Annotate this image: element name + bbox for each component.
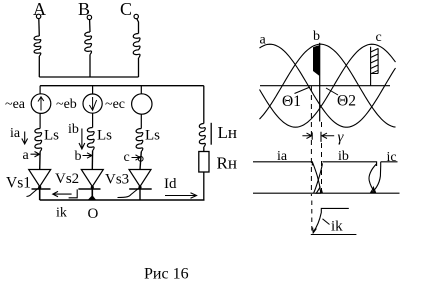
svg-text:ik: ik [56, 206, 67, 221]
terminal B [87, 15, 91, 19]
inductor Ls phase c [136, 129, 143, 152]
label ik waveform [323, 219, 330, 225]
gate Vs1 [27, 188, 39, 197]
wire B terminal to coil [89, 20, 91, 32]
transformer winding B [85, 32, 92, 55]
gate Vs2 [69, 189, 78, 197]
svg-text:a: a [260, 33, 267, 48]
commutation fill at b [313, 46, 319, 76]
junction node O dot [89, 196, 96, 200]
wire bus to ~eb [92, 86, 94, 94]
wire B coil to bus [89, 55, 91, 78]
svg-text:Рис 16: Рис 16 [144, 266, 189, 283]
wire Vs1 to bus [39, 187, 41, 201]
svg-text:O: O [88, 206, 99, 222]
cathode bus wire [40, 199, 205, 201]
wire a to Vs1 [39, 152, 41, 170]
upper bus wire [39, 76, 138, 78]
svg-text:b: b [313, 29, 320, 44]
sine wave phase b [260, 44, 396, 127]
dashed line theta1 [310, 86, 312, 196]
ik zero line [311, 234, 357, 236]
wire bus to ~ec [140, 86, 142, 94]
current ib trace [314, 162, 377, 193]
inductor Ln [199, 124, 205, 148]
dashed line theta2 [321, 122, 323, 192]
svg-text:Ls: Ls [97, 128, 112, 144]
current arrow Id [165, 193, 197, 198]
resistor Rn [199, 152, 209, 173]
wire bus to Ln [203, 86, 205, 124]
svg-text:b: b [75, 149, 82, 164]
wire Rn to bus [203, 172, 205, 200]
wire C coil to bus [138, 58, 140, 77]
svg-text:γ: γ [338, 130, 345, 146]
svg-text:ik: ik [331, 219, 343, 235]
thyristor Vs3 [129, 170, 151, 187]
svg-text:ia: ia [10, 126, 21, 141]
svg-text:Lн: Lн [218, 123, 237, 142]
svg-text:Ls: Ls [44, 128, 59, 144]
svg-text:Vs1: Vs1 [6, 175, 31, 192]
current arrow ik [53, 191, 72, 196]
transformer winding A [34, 36, 41, 56]
svg-text:ib: ib [338, 149, 349, 164]
svg-text:B: B [78, 0, 90, 19]
svg-text:c: c [376, 30, 382, 45]
sine wave phase a [260, 44, 396, 127]
svg-text:Vs2: Vs2 [55, 171, 79, 187]
svg-text:~ec: ~ec [105, 97, 125, 112]
vertical line at b peak [319, 43, 321, 122]
thyristor Vs2 [81, 170, 103, 187]
wire Vs2 to bus [91, 187, 93, 200]
svg-text:C: C [120, 0, 132, 19]
hatched band at c [371, 47, 379, 86]
source ~ec [132, 94, 152, 114]
wire c to Vs3 [140, 152, 141, 170]
wire Vs3 to bus [139, 187, 141, 201]
svg-text:ic: ic [387, 150, 397, 165]
wire C terminal to coil [137, 19, 139, 34]
svg-text:A: A [33, 0, 46, 19]
current zero axis [253, 192, 400, 194]
wire Ln to Rn [203, 147, 205, 152]
svg-text:Rн: Rн [217, 154, 237, 173]
svg-text:Θ2: Θ2 [337, 93, 356, 110]
inductor Ls phase b [87, 128, 94, 151]
wire A terminal to coil [38, 19, 41, 36]
wire ~ea to Ls [39, 113, 41, 128]
wire ~eb to Ls [92, 113, 94, 127]
current ia trace [253, 162, 321, 193]
current ic trace [371, 162, 398, 193]
source ~ea [31, 94, 51, 114]
lower bus wire [40, 85, 204, 87]
current ik trace [313, 208, 349, 232]
svg-text:c: c [124, 150, 130, 165]
voltage axis [260, 85, 390, 87]
inductor Ls phase a [35, 129, 42, 152]
sine wave phase c [260, 44, 396, 127]
svg-text:Vs3: Vs3 [105, 172, 129, 188]
svg-text:Θ1: Θ1 [282, 93, 301, 110]
svg-text:~eb: ~eb [56, 97, 77, 112]
dimension gamma [302, 133, 311, 138]
terminal A [36, 14, 40, 18]
source ~eb [83, 94, 102, 113]
wire ~ec to Ls [140, 114, 142, 128]
wire b to Vs2 [91, 151, 93, 170]
transformer winding C [133, 34, 140, 59]
wire bus to ~ea [39, 86, 41, 94]
dashed line in ik region [311, 201, 313, 233]
svg-text:ia: ia [277, 149, 288, 164]
svg-text:Ls: Ls [145, 128, 160, 144]
svg-text:a: a [23, 148, 30, 163]
svg-text:Id: Id [164, 176, 177, 192]
svg-text:ib: ib [68, 122, 79, 137]
wire A coil to bus [38, 56, 40, 77]
svg-text:~ea: ~ea [5, 97, 26, 112]
terminal C [134, 14, 138, 18]
gate Vs3 [118, 188, 140, 198]
thyristor Vs1 [29, 170, 51, 187]
